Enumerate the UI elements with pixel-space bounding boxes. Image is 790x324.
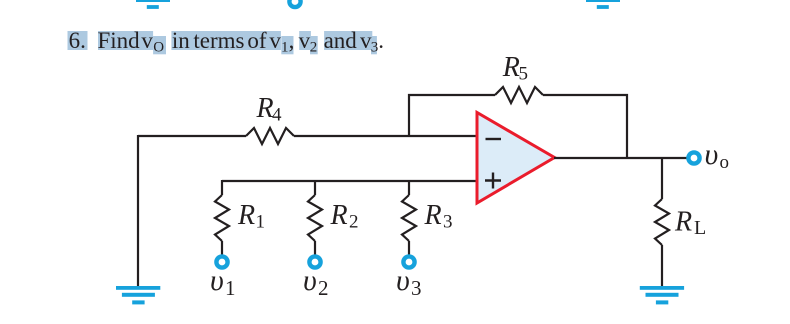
ground (partial, top right) <box>586 0 620 9</box>
svg-text:6.FindvOintermsofv1,v2andv3.: 6.FindvOintermsofv1,v2andv3. <box>69 28 384 56</box>
svg-text:2: 2 <box>318 276 329 300</box>
svg-text:R: R <box>674 207 692 238</box>
resistor RL <box>655 199 706 245</box>
svg-text:R: R <box>502 52 520 83</box>
wire: non-inverting input line <box>222 180 477 182</box>
wire: R2 top lead <box>314 180 316 195</box>
svg-text:o: o <box>720 152 730 173</box>
terminal vo <box>688 138 729 173</box>
wire: R5 to output node <box>543 95 627 158</box>
wire: R3 bottom lead <box>408 241 410 255</box>
ground (bottom left) <box>116 286 160 304</box>
resistor R3 <box>402 195 453 241</box>
terminal v3 <box>396 256 422 300</box>
resistor R2 <box>308 195 359 241</box>
svg-text:υ: υ <box>396 264 410 297</box>
terminal v2 <box>303 256 329 300</box>
svg-text:R: R <box>237 200 255 231</box>
svg-text:L: L <box>694 217 706 239</box>
terminal (partial, top center) <box>289 0 300 7</box>
wire: R4 input line left segment <box>138 135 246 137</box>
svg-text:υ: υ <box>705 138 719 171</box>
svg-text:R: R <box>256 93 274 124</box>
svg-text:1: 1 <box>256 212 266 233</box>
svg-text:1: 1 <box>225 276 236 300</box>
wire: output line <box>554 157 687 159</box>
wire: R2 bottom lead <box>314 241 316 255</box>
svg-text:3: 3 <box>411 276 422 300</box>
wire: load branch down <box>661 158 663 199</box>
svg-text:5: 5 <box>519 64 529 85</box>
wire: feedback branch up from R4 line <box>409 95 495 136</box>
resistor R4 <box>246 93 294 144</box>
wire: RL bottom lead <box>661 245 663 286</box>
svg-text:υ: υ <box>303 264 317 297</box>
wire: R1 bottom lead <box>221 241 223 255</box>
wire: left vertical to ground <box>137 135 139 286</box>
svg-text:2: 2 <box>349 212 359 233</box>
svg-text:R: R <box>424 200 442 231</box>
problem statement highlight <box>68 31 377 54</box>
terminal v1 <box>210 256 236 300</box>
wire: R4 to op-amp inverting input <box>294 135 477 137</box>
ground (bottom right) <box>640 286 684 304</box>
wire: R3 top lead <box>408 180 410 195</box>
svg-text:R: R <box>330 200 348 231</box>
op-amp U1 <box>477 113 555 204</box>
resistor R1 <box>215 195 265 241</box>
svg-text:3: 3 <box>443 212 453 233</box>
resistor R5 <box>495 52 543 103</box>
svg-text:4: 4 <box>272 105 282 126</box>
svg-text:υ: υ <box>210 264 224 297</box>
wire: R1 top lead <box>221 180 223 195</box>
ground (partial, top left) <box>136 0 170 9</box>
